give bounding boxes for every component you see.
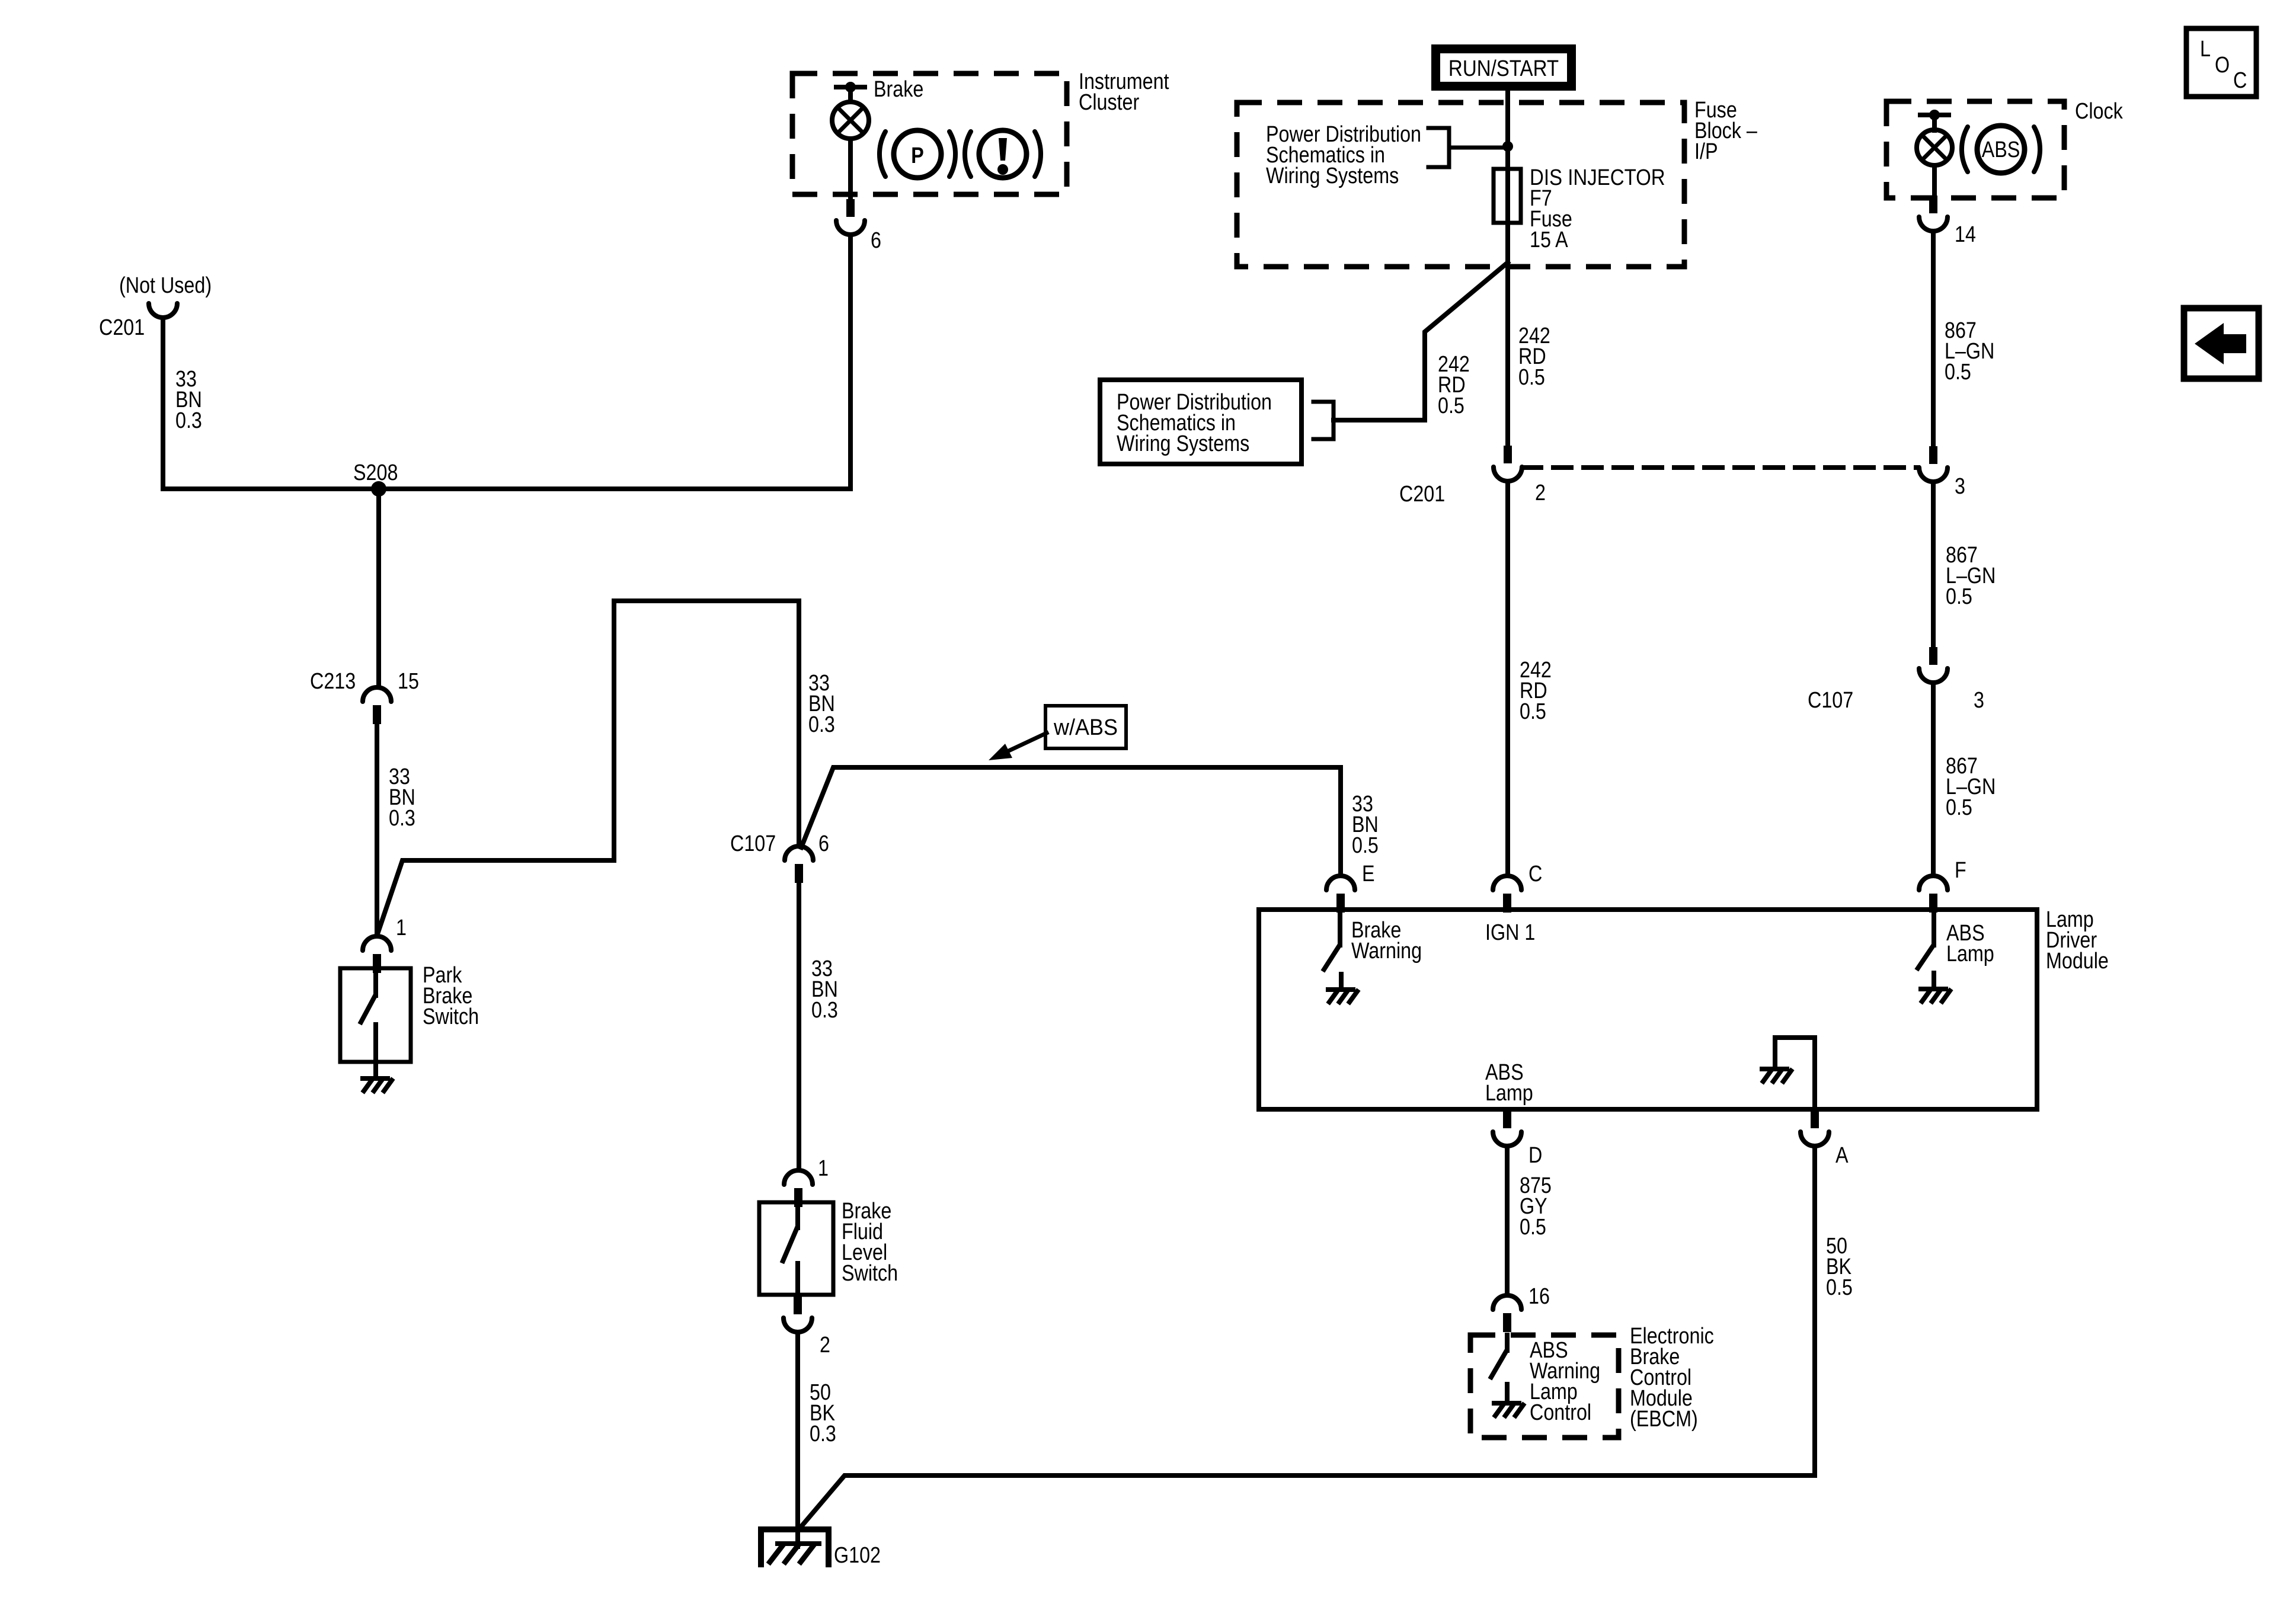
svg-text:w/ABS: w/ABS	[1053, 715, 1118, 740]
connector EBCM pin 16	[1493, 1295, 1521, 1332]
svg-text:C: C	[1528, 862, 1542, 886]
svg-text:1: 1	[818, 1156, 829, 1181]
svg-text:S208: S208	[353, 460, 398, 485]
svg-text:IGN 1: IGN 1	[1485, 920, 1535, 945]
connector pin E	[1326, 876, 1355, 913]
w/ABS arrow	[989, 733, 1047, 760]
ground park brake switch	[363, 1078, 392, 1091]
w/ABS callout box	[1045, 706, 1126, 748]
wire lamp to pin 6	[848, 139, 853, 199]
ABS indicator	[1962, 126, 2040, 173]
svg-text:F: F	[1955, 858, 1966, 883]
wire S208 down	[376, 489, 381, 687]
wire brake warning ground stub	[1339, 974, 1344, 988]
wire w/ABS run to pin E	[801, 767, 1341, 876]
brake fluid switch contacts	[783, 1202, 798, 1295]
LOC reference box	[2186, 28, 2256, 97]
brake warning lamp driver switch	[1324, 910, 1340, 969]
cluster internal bus tap	[836, 82, 865, 92]
connector park brake pin 1	[363, 936, 391, 973]
connector C201 pin 2	[1494, 446, 1522, 481]
fuse F7	[1494, 169, 1521, 223]
wire fluid pin2 to G102	[795, 1332, 800, 1547]
wire C107-6 down	[797, 883, 801, 1170]
brake fluid level switch box	[759, 1202, 833, 1295]
wire EBCM ground run	[801, 1475, 1815, 1526]
wire 875 GY pin D to EBCM	[1505, 1146, 1510, 1295]
svg-text:2: 2	[1535, 481, 1546, 505]
splice S208	[371, 481, 386, 497]
connector C107 pin 3	[1919, 647, 1948, 683]
connector brake fluid pin 2	[784, 1297, 812, 1332]
wire clock lamp feed	[1932, 115, 1937, 130]
wire lamp feed	[848, 87, 853, 102]
wire branch to power dist ref 2	[1334, 263, 1508, 420]
svg-text:C107: C107	[730, 831, 776, 856]
connector brake fluid pin 1	[784, 1170, 813, 1207]
clock dashed box	[1886, 101, 2064, 198]
wire park brake to ground	[373, 1062, 378, 1078]
internal ground lead pin A	[1775, 1038, 1815, 1109]
page arrow box	[2184, 308, 2259, 379]
connector pin C	[1493, 876, 1521, 913]
clock abs lamp	[1917, 130, 1952, 165]
park brake indicator (P)	[880, 130, 955, 178]
svg-text:C107: C107	[1808, 688, 1853, 713]
wire 50 BK pin A down	[1812, 1146, 1817, 1475]
svg-text:D: D	[1528, 1143, 1542, 1168]
ground EBCM internal	[1494, 1403, 1523, 1416]
lamp driver module box	[1259, 910, 2037, 1109]
svg-text:2: 2	[820, 1333, 830, 1358]
EBCM dashed box	[1470, 1335, 1619, 1438]
wire 867 C201-3 to C107-3	[1931, 482, 1936, 647]
wire RUN/START to fuse	[1505, 91, 1510, 169]
park brake switch contacts	[361, 968, 376, 1062]
wire 867 C107-3 to pin F	[1931, 683, 1936, 876]
svg-text:A: A	[1835, 1143, 1849, 1168]
splice fuse feed	[1502, 141, 1513, 152]
abs lamp driver switch	[1918, 910, 1934, 968]
wire 33 BN from pin 6	[848, 235, 853, 489]
svg-text:6: 6	[818, 831, 829, 856]
connector pin D	[1493, 1110, 1521, 1146]
power distribution ref 2 box	[1100, 380, 1302, 464]
svg-text:3: 3	[1974, 688, 1984, 713]
svg-text:C201: C201	[1399, 482, 1445, 507]
svg-text:(Not Used): (Not Used)	[119, 273, 212, 298]
svg-text:L: L	[2200, 37, 2211, 62]
abs warning lamp control switch	[1491, 1335, 1507, 1377]
wire 867 clock to C201-3	[1931, 231, 1936, 446]
wire branch diagonal to loop	[378, 601, 799, 934]
ground G102	[761, 1529, 829, 1564]
bracket power distribution ref 2	[1313, 402, 1334, 439]
svg-text:C: C	[2233, 68, 2247, 93]
ground brake warning driver	[1328, 990, 1357, 1002]
park brake switch box	[340, 968, 411, 1062]
connector C201 pin 3	[1919, 446, 1948, 482]
RUN/START hot-at box	[1431, 44, 1576, 91]
svg-text:G102: G102	[834, 1543, 881, 1568]
connector pin 6 instrument cluster	[836, 199, 865, 235]
svg-text:3: 3	[1955, 474, 1965, 499]
bracket power distribution ref 1	[1428, 128, 1508, 167]
wire C201 to S208	[161, 318, 165, 489]
brake lamp	[832, 102, 869, 139]
brake warning indicator (!)	[965, 130, 1041, 178]
connector pin A	[1801, 1110, 1829, 1146]
wire 242 RD to pin C	[1505, 481, 1510, 876]
wire fuse output	[1505, 223, 1510, 446]
instrument cluster dashed box	[792, 73, 1067, 194]
ground internal pin A	[1762, 1069, 1791, 1081]
wire clock lamp to pin 14	[1932, 165, 1937, 196]
svg-text:C201: C201	[99, 315, 145, 340]
connector C107 pin 6	[785, 846, 813, 883]
svg-text:16: 16	[1528, 1284, 1550, 1309]
svg-text:15: 15	[398, 669, 419, 694]
fuse block dashed box	[1237, 103, 1684, 267]
svg-text:P: P	[911, 143, 924, 168]
svg-text:Brake: Brake	[874, 77, 923, 102]
svg-text:C213: C213	[310, 669, 356, 694]
clock internal bus tap	[1920, 110, 1949, 120]
svg-text:1: 1	[396, 916, 407, 940]
svg-text:ABS: ABS	[1982, 137, 2020, 162]
wire abs lamp ground stub	[1932, 973, 1936, 988]
svg-text:RUN/START: RUN/START	[1448, 56, 1559, 81]
wire EBCM ground stub	[1505, 1384, 1510, 1402]
svg-text:6: 6	[871, 228, 881, 253]
svg-text:14: 14	[1955, 222, 1976, 247]
connector C213 pin 15	[363, 687, 391, 724]
svg-text:Clock: Clock	[2075, 99, 2123, 124]
wire S208 horizontal	[163, 486, 850, 491]
wire C213 to park brake switch	[375, 724, 379, 936]
connector pin F	[1919, 876, 1948, 913]
connector C201 not used	[149, 303, 177, 318]
svg-text:O: O	[2215, 53, 2230, 78]
ground abs lamp driver	[1921, 989, 1950, 1001]
dashed connector link C201	[1523, 465, 1918, 470]
connector clock pin 14	[1919, 196, 1948, 231]
svg-text:E: E	[1362, 862, 1375, 886]
